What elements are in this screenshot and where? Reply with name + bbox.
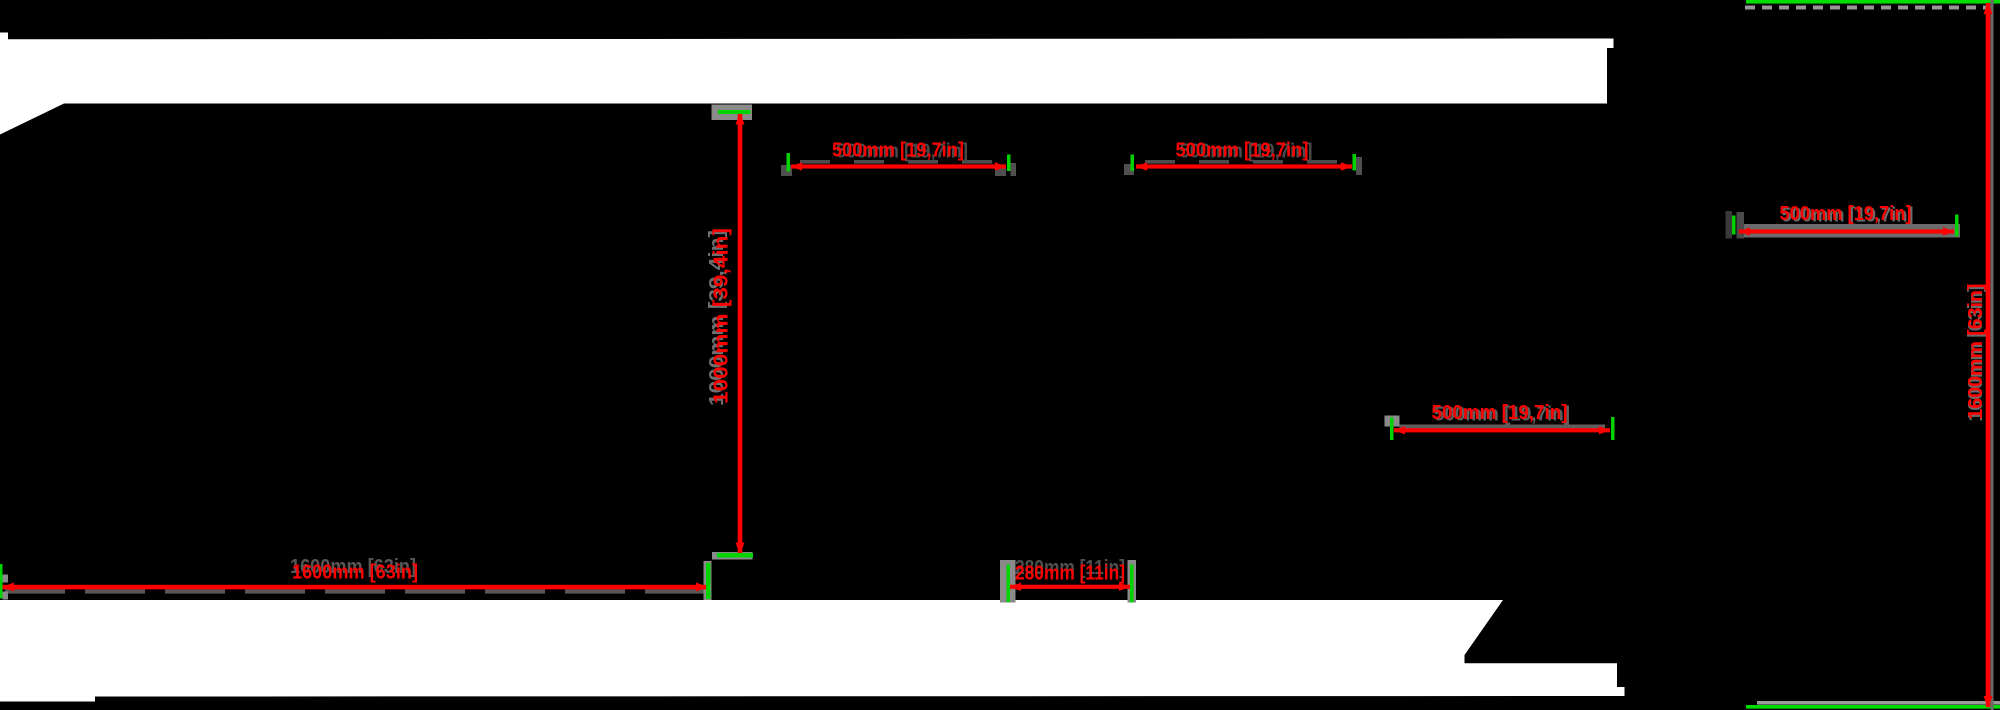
- dimension 1600mm horizontal: right arrowhead: [696, 583, 708, 592]
- top panel (white slab, side view): [0, 33, 1614, 135]
- dimension 500mm no.4 mid right: right green extension tick: [1611, 417, 1615, 440]
- dimension 500mm no.2: left arrowhead: [1136, 162, 1147, 170]
- svg-text:500mm [19,7in]: 500mm [19,7in]: [1432, 402, 1568, 424]
- dimension 1600mm vertical right: gray companion line: [1991, 0, 1994, 710]
- dimension 280mm: left green extension tick: [1007, 565, 1011, 603]
- dimension 500mm no.2: left green extension tick: [1131, 155, 1135, 172]
- svg-text:500mm [19,7in]: 500mm [19,7in]: [832, 140, 964, 162]
- dimension 280mm: left arrowhead: [1010, 583, 1021, 591]
- dimension 500mm no.4 mid right: left arrowhead: [1394, 426, 1405, 434]
- dimension 500mm no.1: gray pad right of tick: [1011, 163, 1017, 176]
- dimension 500mm no.1: right arrowhead: [995, 162, 1006, 170]
- dimension 1600mm horizontal: gray pad right: [704, 561, 712, 600]
- svg-text:280mm [11in]: 280mm [11in]: [1015, 563, 1125, 585]
- dimension 500mm no.4 mid right: red dimension line: [1394, 428, 1610, 432]
- dimension 1000mm vertical: gray pad bottom: [712, 552, 753, 560]
- gray dashed line under top-right datum: [1745, 6, 2000, 10]
- dimension 1600mm vertical right: bottom arrowhead: [1984, 696, 1993, 708]
- dimension 500mm no.2: gray dashes above line: [1145, 160, 1345, 164]
- dimension 500mm no.3 top right: right arrowhead: [1943, 227, 1954, 235]
- dimension 500mm no.1: left arrowhead: [791, 162, 802, 170]
- dimension 1600mm vertical right: top arrowhead: [1984, 2, 1993, 14]
- dimension 1600mm horizontal: left green extension tick: [0, 564, 3, 599]
- svg-text:1600mm [63in]: 1600mm [63in]: [292, 562, 418, 584]
- dimension 500mm no.2: right arrowhead: [1341, 162, 1352, 170]
- dimension 1600mm horizontal: gray pad left lower: [3, 592, 9, 600]
- dimension 500mm no.4 mid right: gray pad left: [1385, 416, 1400, 427]
- bottom-right green datum line: [1746, 705, 2000, 709]
- dimension 500mm no.3 top right: gray band behind line: [1739, 224, 1960, 238]
- dimension 500mm no.1: left green extension tick: [787, 153, 791, 172]
- dimension 500mm no.3 top right: red dimension line: [1739, 229, 1954, 233]
- svg-text:500mm [19,7in]: 500mm [19,7in]: [1176, 140, 1309, 162]
- svg-text:500mm [19,7in]: 500mm [19,7in]: [1780, 203, 1912, 225]
- dimension 500mm no.4 mid right: right arrowhead: [1599, 426, 1610, 434]
- top-right green datum line: [1746, 0, 2000, 4]
- dimension 1600mm horizontal: right green extension tick: [706, 563, 711, 599]
- dimension 500mm no.2: gray pad right: [1356, 157, 1362, 175]
- dimension 1000mm vertical: red dimension line: [738, 114, 743, 554]
- dimension 500mm no.3 top right: left green extension tick: [1732, 216, 1736, 235]
- dimension 1000mm vertical: bottom green extension tick: [717, 553, 753, 558]
- svg-text:1600mm [63in]: 1600mm [63in]: [1965, 284, 1987, 420]
- dimension 1600mm horizontal: gray dashed shadow line: [5, 588, 706, 593]
- dimension 500mm no.3 top right: left arrowhead: [1739, 227, 1750, 235]
- dimension 500mm no.4 mid right: left green extension tick: [1390, 418, 1394, 441]
- dimension 1000mm vertical: bottom arrowhead: [736, 543, 745, 555]
- dimension 280mm: gray pad right: [1128, 560, 1137, 603]
- dimension 1600mm horizontal: gray pad left upper: [3, 575, 9, 583]
- dimension 500mm no.1: right green extension tick: [1007, 155, 1011, 172]
- dimension 500mm no.2: red dimension line: [1136, 164, 1352, 168]
- dimension 500mm no.1: red dimension line: [791, 164, 1006, 168]
- dimension 1000mm vertical: top arrowhead: [736, 113, 745, 125]
- dimension 500mm no.3 top right: dark gray pad left: [1737, 212, 1745, 239]
- dimension 500mm no.2: right green extension tick: [1353, 154, 1357, 171]
- dimension 500mm no.4 mid right: gray band behind line: [1400, 425, 1606, 431]
- svg-text:1000mm [39,4in]: 1000mm [39,4in]: [711, 228, 733, 404]
- dimension 500mm no.1: gray pad left: [781, 165, 792, 176]
- dimension 280mm: right green extension tick: [1130, 565, 1134, 603]
- dimension 1600mm horizontal: left arrowhead: [2, 583, 14, 592]
- dimension 280mm: gray pad left: [1000, 560, 1016, 603]
- gray line above bottom-right datum: [1757, 701, 2000, 705]
- dimension 1600mm vertical right: red dimension line: [1986, 3, 1991, 707]
- dimension 1600mm horizontal: red dimension line: [2, 585, 708, 590]
- dimension 1000mm vertical: gray pad top: [712, 105, 753, 121]
- dimension 500mm no.1: gray dashes above line: [800, 160, 1000, 164]
- dimension 500mm no.2: gray pad left: [1124, 164, 1134, 175]
- dimension 500mm no.3 top right: right green extension tick: [1955, 215, 1959, 237]
- dimension 500mm no.3 top right: dark gray pad far left: [1726, 211, 1733, 239]
- dimension 1000mm vertical: top green extension tick: [718, 110, 751, 114]
- dimension 280mm: red dimension line: [1010, 585, 1130, 589]
- bottom panel (white slab with stepped right end): [0, 600, 1625, 702]
- dimension 280mm: right arrowhead: [1119, 583, 1130, 591]
- dimension 500mm no.1: gray pad right lower: [995, 168, 1006, 176]
